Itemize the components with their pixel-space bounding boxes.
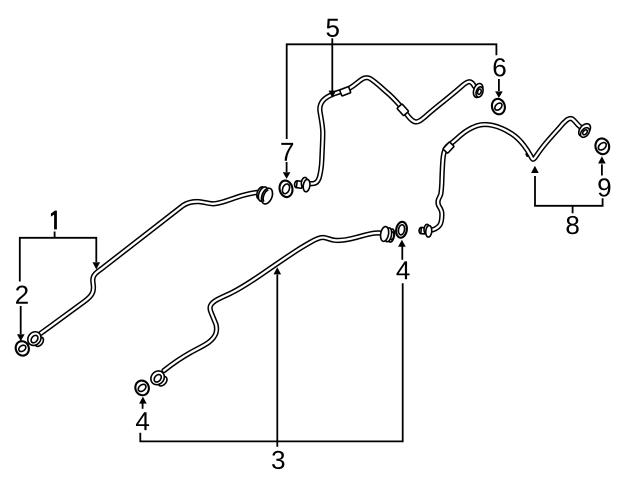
tube 8 bend crease [526,153,528,157]
tube 5 sleeve b [397,104,409,116]
label 2 [16,286,28,304]
label 8 [566,216,578,234]
o-ring 9 [594,137,611,156]
label 9 [598,178,610,196]
label 3 [272,451,284,469]
tube 5 [307,78,474,184]
callout bracket 8 [535,176,603,213]
o-ring 4 right [395,221,408,239]
callout 4 left arrow [142,403,144,409]
tube 1 upper end fitting [254,185,274,206]
callout 2 arrow [20,306,22,334]
tube 3 [164,233,380,371]
label 4 left [136,412,149,430]
callout 5 arrow [331,38,333,91]
callout bracket 3 [140,275,402,447]
tube 3 lower end fitting [148,368,170,389]
callout bracket 5 [287,44,497,139]
o-ring 6 [490,97,506,115]
tube 1 lower end fitting [25,329,46,350]
tube 5 bolt fitting [294,176,311,192]
tube 5 right end fitting [472,82,485,99]
tube 8 [430,119,581,231]
callout 7 arrow [286,162,288,172]
callout 6 arrow [498,79,500,91]
label 6 [494,58,506,76]
tube 8 right end fitting [576,121,593,139]
tube 8 sleeve [443,142,454,154]
callout bracket 1 [20,232,97,282]
tube 1 [41,192,258,333]
label 1 [51,211,57,230]
label 7 [281,143,293,161]
label 4 right [396,261,409,279]
o-ring 7 [278,179,294,198]
tube 8 bolt fitting [419,224,433,238]
o-ring 4 left [133,379,150,397]
tube 5 sleeve a [340,86,351,96]
callout 9 arrow [601,164,603,175]
label 5 [327,19,339,37]
callout 4 right arrow [401,246,403,259]
o-ring 2 [14,339,31,357]
tube 3 right end fitting [379,226,395,243]
